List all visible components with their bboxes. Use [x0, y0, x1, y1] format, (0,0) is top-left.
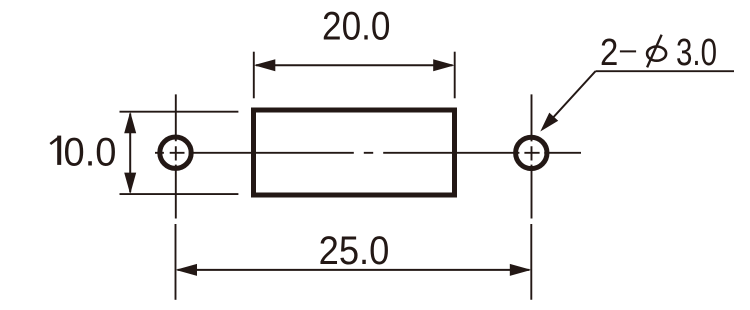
- arrowhead 10.0 top: [124, 112, 136, 134]
- leader line diagonal: [546, 71, 596, 125]
- arrowhead 10.0 bottom: [124, 173, 136, 195]
- hole left circle: [160, 137, 191, 168]
- dimension text 10.0 digit 1: [57, 136, 61, 165]
- extension line right for 25.0: [530, 224, 532, 300]
- hole right circle: [516, 137, 547, 168]
- extension line left for 25.0: [175, 224, 177, 300]
- dimension line 10.0: [129, 114, 131, 193]
- svg-text:25.0: 25.0: [319, 228, 390, 273]
- label minus dash: [620, 50, 636, 52]
- phi symbol ellipse: [647, 47, 666, 61]
- extension line bottom for 10.0: [120, 193, 239, 195]
- dimension line 25.0: [178, 269, 530, 271]
- extension line top for 10.0: [120, 111, 239, 113]
- leader arrowhead at right hole: [540, 113, 558, 132]
- svg-text:2: 2: [600, 32, 618, 74]
- arrowhead 20.0 right: [433, 59, 455, 71]
- extension line left for 20.0: [253, 52, 255, 99]
- extension line right for 20.0: [454, 52, 456, 99]
- svg-text:0.0: 0.0: [64, 129, 117, 174]
- vertical center line right hole: [531, 94, 533, 218]
- svg-text:3.0: 3.0: [676, 32, 717, 74]
- dimension line 20.0: [256, 64, 453, 66]
- phi symbol slash: [647, 35, 662, 68]
- arrowhead 25.0 left: [176, 264, 198, 276]
- arrowhead 20.0 left: [254, 59, 275, 71]
- part body rectangle: [254, 110, 455, 195]
- horizontal center line: [155, 152, 581, 154]
- arrowhead 25.0 right: [510, 264, 532, 276]
- leader line horizontal for 2-phi3.0: [596, 70, 735, 72]
- svg-text:20.0: 20.0: [322, 4, 391, 49]
- vertical center line left hole: [175, 94, 177, 218]
